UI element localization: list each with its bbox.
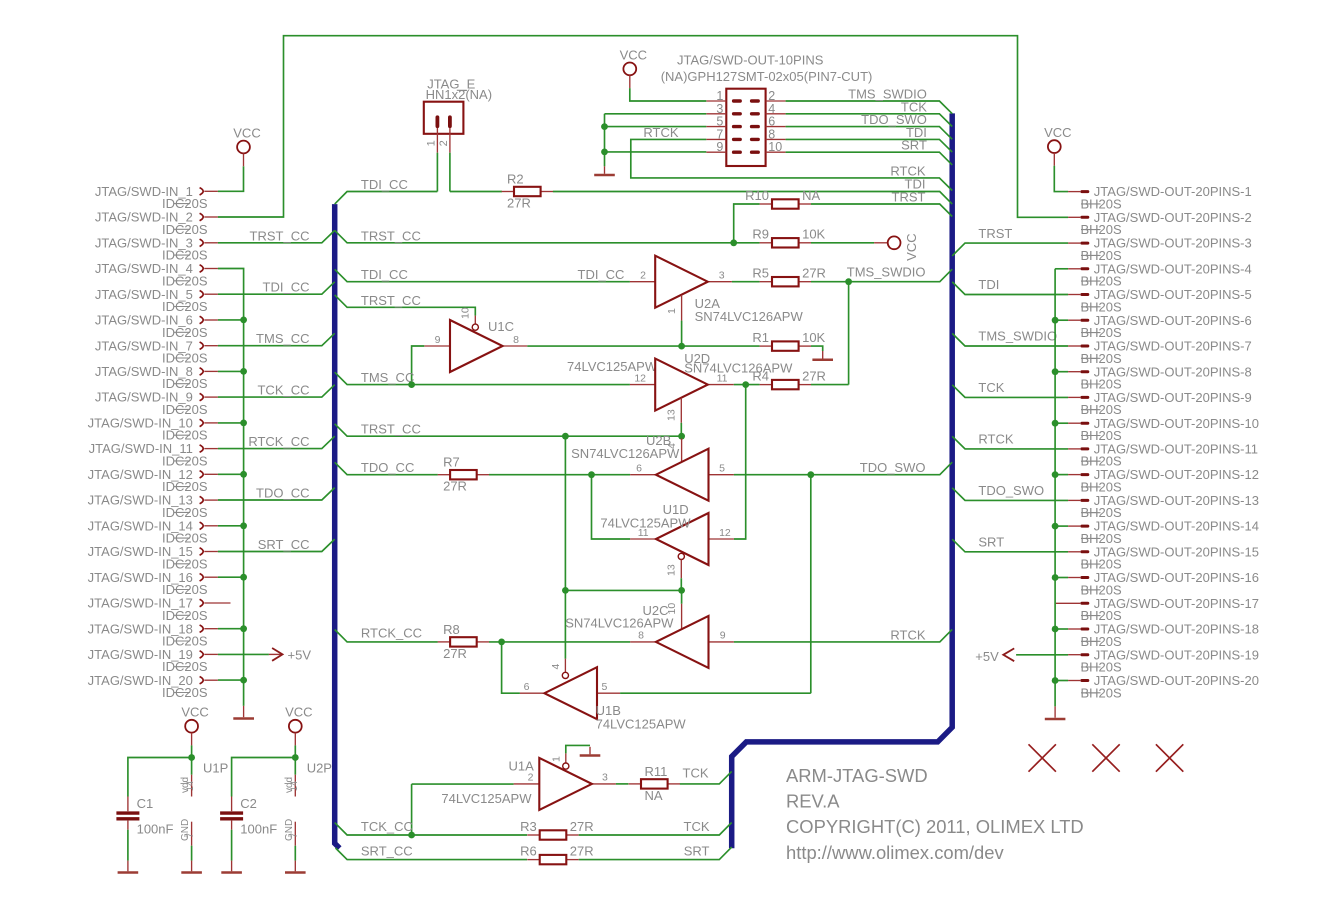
svg-text:27R: 27R — [443, 479, 467, 494]
junction — [1052, 523, 1059, 530]
junction — [601, 123, 608, 130]
connector pin JTAG/SWD-IN_5 (IDC20S) — [95, 287, 218, 314]
junction — [240, 574, 247, 581]
ground OUT connector rail — [1045, 706, 1066, 719]
resistor R9 10K — [752, 227, 825, 248]
wire TCK from R11 into bus — [680, 771, 732, 784]
junction — [588, 471, 595, 478]
pin 6 U2B — [630, 474, 656, 476]
resistor R6 27R — [520, 843, 594, 864]
svg-text:REV.A: REV.A — [786, 791, 840, 812]
junction — [1052, 626, 1059, 633]
svg-text:TDO_SWO: TDO_SWO — [978, 483, 1044, 498]
wire TCK from R3 into bus — [579, 823, 732, 836]
wire U1P vdd — [191, 758, 193, 775]
pin 1 U1A (OE) — [565, 753, 567, 763]
connector pin JTAG/SWD-OUT-20PINS-18 (BH20S) — [1068, 622, 1259, 649]
pin 1 U2A (OE) — [681, 295, 683, 321]
no-connect X mark — [1029, 744, 1056, 771]
svg-text:R5: R5 — [752, 266, 769, 281]
pin 3 U1A — [592, 783, 616, 785]
wire header GND rail — [604, 114, 606, 167]
pin 9 U1C — [424, 345, 450, 347]
connector pin JTAG/SWD-OUT-20PINS-6 (BH20S) — [1068, 313, 1252, 340]
resistor R7 27R — [438, 455, 489, 494]
svg-text:VCC: VCC — [285, 705, 312, 720]
svg-text:SRT: SRT — [901, 138, 927, 153]
wire U2A out to R5 — [732, 281, 760, 283]
svg-text:TDI_CC: TDI_CC — [263, 280, 310, 295]
connector pin JTAG/SWD-OUT-20PINS-2 (BH20S) — [1068, 210, 1252, 237]
svg-text:TDI_CC: TDI_CC — [361, 177, 408, 192]
svg-text:1: 1 — [550, 756, 562, 762]
svg-text:R8: R8 — [443, 622, 460, 637]
wire RTCK from header pin 7 into bus — [631, 139, 952, 190]
power VCC (header) — [620, 47, 647, 88]
connector pin JTAG/SWD-OUT-20PINS-17 (BH20S) — [1056, 596, 1259, 623]
svg-text:9: 9 — [435, 334, 441, 346]
wire U1D OE down — [680, 578, 682, 590]
connector pin JTAG/SWD-IN_10 (IDC20S) — [88, 416, 218, 443]
wire IN even pin to GND rail — [218, 679, 244, 681]
buffer U1C 74LVC125APW — [450, 320, 503, 372]
svg-text:3: 3 — [602, 772, 608, 784]
connector pin JTAG/SWD-OUT-20PINS-8 (BH20S) — [1068, 364, 1252, 391]
wire header TCK into bus — [786, 114, 953, 127]
wire U1C input from TMS_CC — [412, 346, 425, 385]
buffer U2C SN74LVC126APW — [656, 616, 709, 668]
wire IN_1 to VCC — [218, 166, 244, 191]
pin 5 U1B — [597, 692, 620, 694]
wire RTCK to OUT connector — [952, 436, 1068, 449]
svg-text:SRT: SRT — [684, 844, 710, 859]
wire OE link TRST_CC — [565, 589, 681, 591]
buffer U1A 74LVC125APW — [539, 758, 592, 810]
junction — [1052, 471, 1059, 478]
wire header pin 5 — [605, 126, 707, 128]
wire VTref IN_2 to OUT-2 top loop — [218, 36, 1068, 218]
wire U1A OE to GND — [566, 745, 590, 753]
svg-text:R1: R1 — [752, 330, 769, 345]
wire TCK_CC from bus to R3 — [335, 823, 527, 835]
svg-text:7: 7 — [185, 833, 195, 838]
power +5V arrow (right) — [975, 648, 1014, 664]
svg-text:1: 1 — [426, 140, 438, 146]
svg-text:U2P: U2P — [307, 761, 332, 776]
pin 2 U2A — [630, 281, 655, 283]
svg-text:VCC: VCC — [1044, 125, 1071, 140]
junction — [678, 343, 685, 350]
wire TRST from R10 into right bus — [811, 204, 952, 217]
resistor R2 27R — [502, 172, 553, 211]
svg-text:10: 10 — [768, 140, 782, 154]
wire R9 to VCC — [811, 242, 874, 244]
wire OUT-8 to GND rail — [1055, 371, 1068, 373]
pin 1 wire JTAG_E — [436, 153, 438, 192]
svg-text:13: 13 — [666, 409, 678, 421]
wire VCC U1P — [191, 745, 193, 757]
wire U1B input from TDO_SWO — [620, 692, 811, 694]
junction — [807, 471, 814, 478]
wire IN even pin to GND rail — [218, 370, 244, 372]
svg-text:http://www.olimex.com/dev: http://www.olimex.com/dev — [786, 842, 1005, 863]
wire VCC to OUT-1 — [1054, 166, 1068, 192]
svg-text:4: 4 — [550, 664, 562, 670]
wire OUT-4 — [1055, 268, 1068, 270]
wire to U1D output — [592, 475, 631, 539]
buffer U2B SN74LVC126APW — [656, 449, 709, 501]
wire OUT-20 to GND rail — [1055, 680, 1068, 682]
svg-text:+5V: +5V — [975, 649, 999, 664]
wire OUT-6 to GND rail — [1055, 319, 1068, 321]
connector pin JTAG/SWD-OUT-20PINS-3 (BH20S) — [1068, 236, 1252, 263]
pin 8 U2C — [630, 641, 656, 643]
wire IN even pin to GND rail — [218, 422, 244, 424]
pin 12 U1D — [709, 538, 734, 540]
resistor R10 NA — [745, 188, 820, 209]
wire U2P vdd — [294, 758, 296, 775]
svg-text:R2: R2 — [507, 172, 524, 187]
svg-text:TRST: TRST — [892, 190, 926, 205]
svg-text:74LVC125APW: 74LVC125APW — [441, 791, 532, 806]
svg-text:100nF: 100nF — [240, 822, 277, 837]
capacitor C1 100nF — [116, 796, 173, 837]
wire U2A OE down — [681, 321, 683, 347]
wire RTCK into right bus — [734, 629, 952, 642]
capacitor C2 100nF — [220, 796, 277, 837]
power pin GND U2P — [284, 819, 299, 846]
pin 12 U2D — [630, 384, 655, 386]
svg-text:SRT_CC: SRT_CC — [361, 844, 413, 859]
connector pin JTAG/SWD-IN_13 (IDC20S) — [88, 493, 218, 520]
connector pin JTAG/SWD-OUT-20PINS-5 (BH20S) — [1068, 287, 1252, 314]
wire TMS_CC into bus — [218, 333, 335, 345]
connector JTAG/SWD-OUT-10PINS GPH127SMT — [661, 53, 873, 166]
wire header TDI into bus — [786, 139, 953, 152]
wire stub to U2B OE — [681, 436, 683, 438]
wire TDI_CC into bus — [218, 282, 335, 294]
svg-text:R11: R11 — [645, 764, 668, 779]
svg-text:TMS_SWDIO: TMS_SWDIO — [978, 329, 1057, 344]
svg-text:COPYRIGHT(C) 2011, OLIMEX LTD: COPYRIGHT(C) 2011, OLIMEX LTD — [786, 816, 1084, 837]
connector pin JTAG/SWD-OUT-20PINS-7 (BH20S) — [1068, 339, 1252, 366]
junction — [240, 420, 247, 427]
wire VCC to C2 — [232, 758, 296, 797]
pin 2 U1A — [514, 783, 540, 785]
pin 13 U1D (OE) — [680, 560, 682, 579]
wire R4 to TMS_SWDIO vertical — [848, 282, 850, 385]
ground IN connector rail — [233, 706, 254, 719]
bus left (CC side) — [335, 204, 340, 848]
no-connect X mark — [1156, 744, 1183, 771]
wire to U2C OE — [681, 590, 683, 603]
wire R4 to vertical — [811, 384, 849, 386]
svg-text:U1B: U1B — [596, 703, 621, 718]
svg-text:R3: R3 — [520, 819, 537, 834]
wire VCC U2P — [294, 745, 296, 757]
wire SRT_CC from bus to R6 — [336, 848, 528, 860]
wire TCK to OUT connector — [952, 385, 1068, 398]
wire TMS_SWDIO to OUT connector — [952, 333, 1068, 346]
junction — [601, 149, 608, 156]
wire OUT-18 to GND rail — [1055, 628, 1068, 630]
buffer U2A SN74LVC126APW — [655, 256, 708, 308]
svg-text:ARM-JTAG-SWD: ARM-JTAG-SWD — [786, 765, 928, 786]
wire TRST to OUT-3 — [952, 243, 1068, 256]
wire VCC to C1 — [128, 758, 192, 797]
wire header pin 9 — [605, 151, 707, 153]
svg-text:RTCK: RTCK — [978, 432, 1013, 447]
wire OUT-14 to GND rail — [1055, 525, 1068, 527]
wire RTCK_CC from bus to R8 — [335, 630, 438, 642]
wire header TDO_SWO into bus — [786, 127, 953, 140]
svg-text:7: 7 — [289, 833, 299, 838]
pin 11 U1D — [630, 538, 656, 540]
wire TDI from R2 into right bus — [553, 192, 952, 205]
pin 9 U2C — [709, 641, 734, 643]
bubble U1C pin 10 — [472, 324, 478, 330]
pin 6 U1B — [520, 692, 545, 694]
pin 5 U2B — [709, 474, 734, 476]
svg-text:12: 12 — [719, 527, 731, 539]
connector pin JTAG/SWD-OUT-20PINS-13 (BH20S) — [1068, 493, 1259, 520]
svg-text:R10: R10 — [745, 188, 769, 203]
svg-text:8: 8 — [638, 630, 644, 642]
wire to U1D input — [734, 385, 746, 539]
svg-text:TRST: TRST — [978, 226, 1012, 241]
svg-text:TCK: TCK — [684, 819, 710, 834]
svg-text:74LVC125APW: 74LVC125APW — [600, 515, 691, 530]
svg-text:SN74LVC126APW: SN74LVC126APW — [695, 309, 804, 324]
wire TRST_CC vertical to U1B OE — [564, 436, 566, 659]
svg-text:SRT_CC: SRT_CC — [258, 537, 310, 552]
ground at C1 — [118, 861, 139, 873]
wire U1A input horizontal — [412, 783, 514, 785]
svg-text:C2: C2 — [240, 796, 257, 811]
connector pin JTAG/SWD-OUT-20PINS-4 (BH20S) — [1068, 261, 1252, 288]
ground at C2 — [221, 861, 242, 873]
connector pin JTAG/SWD-IN_7 (IDC20S) — [95, 338, 218, 365]
junction — [240, 368, 247, 375]
wire TDO_CC from bus to R7 — [335, 462, 438, 474]
connector pin JTAG/SWD-OUT-20PINS-20 (BH20S) — [1068, 673, 1259, 700]
wire TDO_CC into bus — [218, 488, 335, 500]
pin 11 U2D — [708, 384, 734, 386]
wire R1 to GND — [811, 346, 823, 351]
buffer U1B 74LVC125APW — [544, 667, 597, 719]
wire JTAG_E pin 2 to R2 — [450, 191, 502, 193]
wire +5V OUT-19 — [1016, 654, 1068, 656]
svg-text:12: 12 — [634, 373, 646, 385]
svg-text:R7: R7 — [443, 455, 460, 470]
wire U1C out to R1 — [527, 345, 759, 347]
svg-text:14: 14 — [289, 781, 299, 791]
svg-text:27R: 27R — [570, 843, 594, 858]
connector pin JTAG/SWD-IN_16 (IDC20S) — [88, 570, 218, 597]
title block text — [786, 765, 1084, 863]
svg-text:5: 5 — [602, 681, 608, 693]
svg-text:27R: 27R — [443, 646, 467, 661]
bubble U1A pin 1 — [563, 763, 569, 769]
wire U2D OE down — [680, 423, 682, 436]
bus right (target side) — [732, 113, 953, 848]
svg-text:SN74LVC126APW: SN74LVC126APW — [571, 446, 680, 461]
svg-text:TMS_CC: TMS_CC — [256, 331, 309, 346]
connector pin JTAG/SWD-IN_19 (IDC20S) — [88, 647, 218, 674]
power pin vdd U1P — [180, 775, 195, 797]
power +5V arrow (left) — [269, 648, 311, 663]
svg-text:RTCK: RTCK — [890, 163, 925, 178]
svg-text:TDO_CC: TDO_CC — [361, 460, 414, 475]
pin 2 wire JTAG_E — [449, 153, 451, 192]
junction — [730, 239, 737, 246]
svg-text:NA: NA — [802, 188, 820, 203]
connector pin JTAG/SWD-IN_8 (IDC20S) — [95, 364, 218, 391]
junction — [408, 381, 415, 388]
connector pin JTAG/SWD-OUT-20PINS-11 (BH20S) — [1068, 442, 1258, 469]
svg-text:VCC: VCC — [904, 233, 919, 260]
svg-text:2: 2 — [438, 140, 450, 146]
svg-text:VCC: VCC — [181, 705, 208, 720]
wire TMS_CC to U2D input — [335, 372, 630, 384]
svg-text:NA: NA — [645, 788, 663, 803]
pin 8 U1C — [503, 345, 527, 347]
resistor R1 10K — [752, 330, 825, 351]
connector pin JTAG/SWD-IN_12 (IDC20S) — [88, 467, 218, 494]
svg-text:27R: 27R — [802, 368, 826, 383]
junction — [562, 433, 569, 440]
wire U1P GND — [191, 846, 193, 861]
wire SRT_CC into bus — [218, 539, 335, 551]
no-connect X mark — [1092, 744, 1119, 771]
wire IN even pin to GND rail — [218, 628, 244, 630]
bubble U1B pin 4 — [562, 672, 568, 678]
svg-text:+5V: +5V — [288, 648, 312, 663]
pin 10 U2C (OE) — [681, 604, 683, 629]
svg-text:2: 2 — [640, 270, 646, 282]
wire IN even pin to GND rail — [218, 319, 244, 321]
junction — [1052, 368, 1059, 375]
wire U1A input vertical — [411, 784, 413, 835]
junction — [1052, 317, 1059, 324]
svg-text:27R: 27R — [802, 266, 826, 281]
wire header pin 3 — [605, 113, 707, 115]
svg-text:TMS_CC: TMS_CC — [361, 370, 414, 385]
connector pin JTAG/SWD-OUT-20PINS-1 (BH20S) — [1068, 184, 1252, 211]
svg-text:TCK: TCK — [978, 380, 1004, 395]
wire OUT-10 to GND rail — [1055, 422, 1068, 424]
wire U2P GND — [294, 846, 296, 861]
junction — [678, 433, 685, 440]
wire header TMS_SWDIO into bus — [786, 101, 953, 114]
power pin GND U1P — [180, 819, 195, 846]
wire SRT to OUT connector — [952, 539, 1068, 552]
svg-text:VCC: VCC — [233, 126, 260, 141]
connector pin JTAG/SWD-IN_4 (IDC20S) — [95, 261, 218, 288]
svg-text:(NA)GPH127SMT-02x05(PIN7-CUT): (NA)GPH127SMT-02x05(PIN7-CUT) — [661, 69, 873, 84]
svg-text:3: 3 — [719, 270, 725, 282]
wire GND rail from IN_4 — [218, 269, 244, 706]
connector pin JTAG/SWD-OUT-20PINS-15 (BH20S) — [1068, 544, 1259, 571]
connector pin JTAG/SWD-IN_18 (IDC20S) — [88, 621, 218, 648]
junction — [240, 522, 247, 529]
svg-text:C1: C1 — [137, 796, 154, 811]
connector pin JTAG/SWD-IN_14 (IDC20S) — [88, 518, 218, 545]
wire TDI_CC from bus to JTAG_E pin 1 — [335, 192, 438, 205]
svg-text:RTCK_CC: RTCK_CC — [248, 434, 309, 449]
pin 13 U2D (OE) — [680, 398, 682, 423]
svg-text:JTAG/SWD-OUT-10PINS: JTAG/SWD-OUT-10PINS — [677, 53, 824, 68]
junction — [188, 754, 195, 761]
ground at U2P — [285, 861, 306, 873]
wire R8 branch to U1B output — [502, 642, 520, 693]
buffer U1D 74LVC125APW — [656, 513, 709, 565]
svg-text:TRST_CC: TRST_CC — [361, 228, 421, 243]
svg-text:10K: 10K — [802, 227, 825, 242]
svg-text:RTCK: RTCK — [890, 627, 925, 642]
junction — [240, 317, 247, 324]
svg-text:100nF: 100nF — [137, 822, 174, 837]
wire header SRT into bus — [786, 152, 953, 165]
wire R7 to U2B output — [489, 474, 630, 476]
svg-text:6: 6 — [636, 462, 642, 474]
svg-text:9: 9 — [716, 140, 723, 154]
wire TMS_SWDIO from R5 into right bus — [811, 269, 952, 282]
svg-text:U1C: U1C — [488, 319, 514, 334]
connector pin JTAG/SWD-OUT-20PINS-14 (BH20S) — [1068, 519, 1259, 546]
wire TDI to OUT connector — [952, 282, 1068, 295]
svg-text:5: 5 — [719, 462, 725, 474]
connector pin JTAG/SWD-IN_11 (IDC20S) — [89, 441, 218, 468]
resistor R8 27R — [438, 622, 489, 661]
wire TDO_SWO vertical to U1B input — [810, 475, 812, 694]
junction — [1052, 420, 1059, 427]
resistor R3 27R — [520, 819, 594, 840]
junction — [845, 278, 852, 285]
wire VCC to header pin 1 — [630, 88, 707, 101]
pin 10 U1C (OE) — [474, 316, 476, 324]
wire C1 to ground — [127, 830, 129, 861]
bubble U1D pin 13 — [678, 553, 684, 559]
svg-text:TDO_CC: TDO_CC — [256, 486, 309, 501]
wire IN even pin to GND rail — [218, 576, 244, 578]
svg-text:TCK: TCK — [683, 766, 709, 781]
ground at R1 — [812, 351, 833, 360]
wire IN even pin to GND rail — [218, 473, 244, 475]
connector pin JTAG/SWD-IN_2 (IDC20S) — [95, 210, 218, 237]
wire U1A out to R11 — [616, 783, 629, 785]
svg-text:R4: R4 — [752, 368, 769, 383]
wire SRT from R6 into bus — [579, 847, 732, 860]
wire TDO_SWO into right bus — [734, 462, 952, 475]
svg-text:TRST_CC: TRST_CC — [250, 228, 310, 243]
power VCC (right top) — [1044, 125, 1071, 166]
junction — [240, 677, 247, 684]
connector pin JTAG/SWD-IN_20 (IDC20S) — [88, 673, 218, 700]
junction — [678, 587, 685, 594]
wire TCK_CC into bus — [218, 385, 335, 397]
connector JTAG_E HN1x2(NA) — [424, 77, 492, 153]
svg-text:TDI_CC: TDI_CC — [361, 267, 408, 282]
svg-text:6: 6 — [524, 681, 530, 693]
junction — [742, 381, 749, 388]
junction — [240, 471, 247, 478]
svg-text:SN74LVC126APW: SN74LVC126APW — [565, 615, 674, 630]
wire IN_19 +5V — [218, 653, 269, 655]
svg-text:14: 14 — [185, 781, 195, 791]
wire TRST_CC from bus to R9 — [335, 230, 760, 242]
svg-text:VCC: VCC — [620, 47, 647, 62]
